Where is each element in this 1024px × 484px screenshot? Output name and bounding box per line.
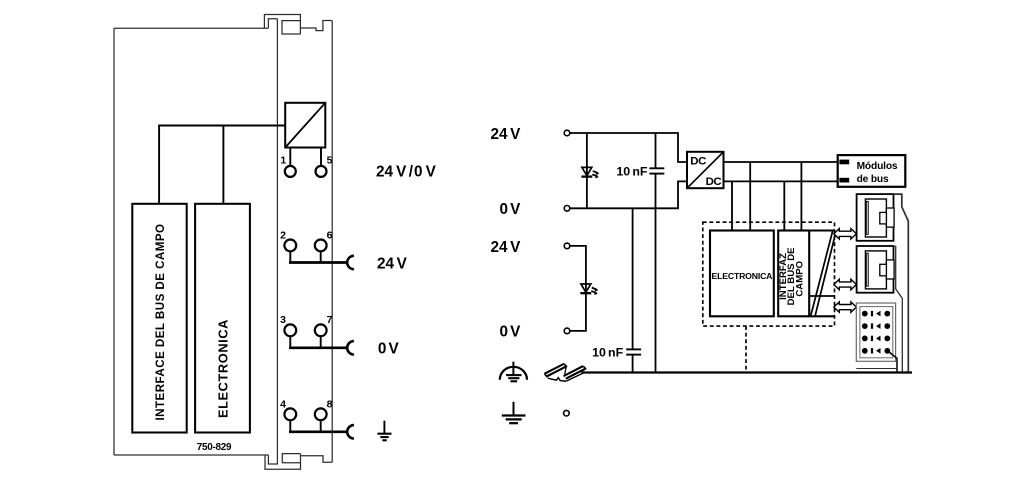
wire branch to ELECTRONICA (top rail) [749,162,751,231]
box INTERFAZ DEL BUS DE CAMPO [778,231,809,317]
top channel profile [300,21,332,31]
wire LED1 branch [586,133,588,208]
wire branch to INTERFAZ (bottom rail) [783,181,785,230]
clamp terminal earth [347,425,354,438]
top latch tab [264,15,300,35]
box: ELECTRONICA (left module) [195,204,250,433]
box ELECTRONICA (schematic) [710,231,774,317]
wire from boxes to filter [158,126,285,204]
connector service interface (pin field) [856,303,895,361]
clamp terminal 24V [347,256,354,269]
housing profile line right of RJ45 no.2 [894,246,903,372]
svg-text:10nF: 10nF [616,165,648,179]
DC/DC converter U1 [687,152,724,188]
earth rail [582,371,913,373]
terminal 24V [564,130,570,136]
wire row 4/8 to clamp [289,420,347,432]
box: INTERFACE DEL BUS DE CAMPO [132,204,186,433]
column right edge [331,21,333,463]
svg-text:Módulos: Módulos [857,161,898,172]
bottom latch tab [265,454,301,470]
dashed stub to earth rail [745,326,747,372]
svg-text:10nF: 10nF [592,345,624,359]
terminal 0V [564,206,570,212]
svg-text:24V: 24V [490,239,521,256]
protective earth symbol (arc with ground) [500,362,527,382]
wire DC/DC output bottom rail [724,180,838,182]
wire DC/DC output top rail [724,161,838,163]
LED D1 [581,167,599,178]
svg-text:24V: 24V [490,126,521,143]
wire service connector pin to chassis [888,351,898,373]
bottom channel profile [301,456,333,463]
wire 0V rail [570,181,687,208]
svg-text:750-829: 750-829 [197,442,232,453]
svg-text:ELECTRONICA: ELECTRONICA [712,271,774,281]
svg-text:0V: 0V [499,201,521,218]
terminal 0V sensor [564,328,570,334]
wire branch to ELECTRONICA (bottom rail) [731,181,733,230]
connector RJ45 no.1 [857,194,895,241]
svg-text:0V: 0V [378,341,400,358]
box Modulos de bus [838,155,906,187]
DIN rail icon [544,364,586,382]
pin 4 contact [284,408,296,420]
wire top edge of housing [114,27,268,29]
pin 2 contact [284,240,296,252]
pin 5 stem and contact [320,148,322,167]
terminal (unconnected) [564,410,570,416]
connector RJ45 no.2 [857,246,895,293]
top latch slot [268,19,277,29]
wire branch to INTERFAZ (top rail) [800,162,802,231]
svg-text:0V: 0V [499,324,521,341]
wire row 2/6 to clamp [289,251,347,262]
capacitor C1 to earth [649,133,664,373]
svg-text:8: 8 [327,398,333,410]
pin 1 stem and contact [289,148,291,167]
svg-text:6: 6 [327,229,333,241]
svg-text:5: 5 [327,155,333,167]
ground symbol (row 4/8) [377,421,391,441]
bus arrow A2 [834,279,857,289]
bus arrow A1 [834,229,857,239]
clamp terminal 0V [347,341,354,354]
svg-text:24V: 24V [377,255,408,272]
pin 6 contact [315,240,327,252]
dashed isolation boundary [703,222,835,326]
wire 24V rail [570,133,687,162]
svg-text:INTERFACE DEL BUS DE CAMPO: INTERFACE DEL BUS DE CAMPO [154,223,167,420]
column divider [268,19,277,464]
svg-text:DC: DC [706,176,722,188]
wire LED2 loop [570,246,586,331]
svg-text:1: 1 [280,155,286,167]
svg-text:2: 2 [280,229,286,241]
svg-text:3: 3 [280,314,286,326]
svg-text:DC: DC [690,155,706,167]
pin 3 contact [284,324,296,336]
svg-text:ELECTRONICA: ELECTRONICA [216,319,231,418]
housing bottom thin edge [856,368,897,370]
svg-text:de bus: de bus [857,174,889,185]
filter FI1 (box with diagonal) [285,103,325,148]
wire left edge of housing [113,28,115,455]
svg-text:7: 7 [327,314,333,326]
wire bottom edge of housing [114,454,268,456]
earth ground symbol (bottom left) [502,402,526,423]
bus arrow A3 [834,302,857,312]
terminal 24V sensor [564,243,570,249]
svg-text:24V/0V: 24V/0V [376,163,437,180]
module housing outline [114,15,332,470]
svg-text:4: 4 [280,398,286,410]
pin 7 contact [315,324,327,336]
svg-text:CAMPO: CAMPO [794,260,805,296]
wire row 3/7 to clamp [289,336,347,348]
LED D2 [580,284,598,295]
housing profile line right of RJ45 no.1 [894,194,909,372]
isolation cell with diagonals [809,231,836,317]
capacitor C2 0V to earth [626,208,641,372]
pin 8 contact [315,408,327,420]
